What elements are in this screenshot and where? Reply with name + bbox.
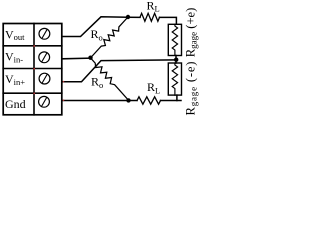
svg-text:Rgage (+e): Rgage (+e) bbox=[184, 8, 199, 58]
wire Gnd row to RL2 bbox=[63, 100, 138, 102]
resistor Ro2 diagonal bbox=[91, 58, 129, 100]
node D1 top junction bbox=[126, 15, 130, 19]
wire RL2 to gage2 bottom bbox=[161, 100, 182, 102]
red artifacts bbox=[33, 45, 64, 101]
terminal symbol Vout bbox=[39, 28, 50, 39]
wire between gages bbox=[175, 56, 177, 64]
resistor RL2 bbox=[137, 97, 161, 104]
node B bottom junction bbox=[126, 98, 130, 102]
node A Ro junction bbox=[88, 56, 92, 60]
resistor RL1 bbox=[140, 13, 159, 21]
wire gage2 bottom stub bbox=[176, 95, 178, 100]
row divider 2 bbox=[3, 68, 62, 70]
gage1 zigzag bbox=[172, 24, 177, 55]
gage2 box bbox=[168, 63, 181, 95]
terminal symbol Vin+ bbox=[39, 73, 50, 84]
row divider 1 bbox=[3, 45, 62, 47]
column divider bbox=[33, 24, 35, 115]
resistor Ro1 diagonal bbox=[91, 17, 129, 58]
gage2 zigzag bbox=[172, 63, 177, 95]
wire Vout row to top node bbox=[63, 17, 141, 37]
terminal symbol Gnd bbox=[39, 96, 50, 107]
wire RL1 to gage1 top bbox=[160, 17, 177, 24]
gage1 box bbox=[168, 24, 181, 55]
node C gage midpoint bbox=[174, 58, 178, 62]
terminal symbol Vin- bbox=[39, 52, 50, 63]
terminal table bbox=[3, 24, 62, 115]
wire Vin+ row to gage midpoint node bbox=[63, 60, 177, 82]
row divider 3 bbox=[3, 92, 62, 94]
wire Vin- row to node A bbox=[63, 57, 91, 60]
svg-text:Gnd: Gnd bbox=[5, 97, 26, 111]
